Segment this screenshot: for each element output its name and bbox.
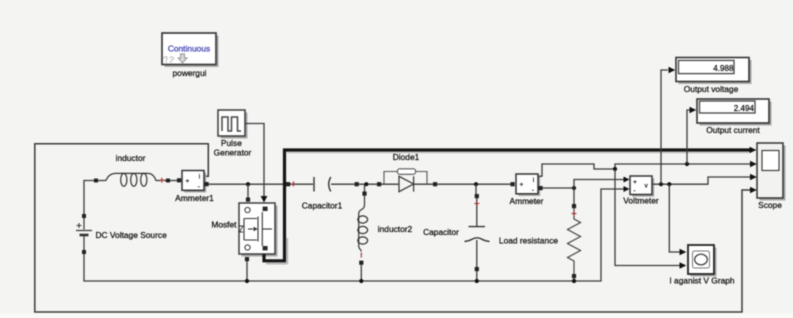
- node arrowhead into Scope input 3: [750, 174, 757, 180]
- node junction dot load on rail: [572, 279, 576, 283]
- svg-text:i: i: [533, 178, 534, 184]
- svg-text:inductor2: inductor2: [378, 224, 413, 234]
- svg-text:Load resistance: Load resistance: [499, 236, 558, 246]
- svg-text:i: i: [199, 174, 200, 180]
- svg-text:Output current: Output current: [706, 125, 760, 135]
- svg-text:Output voltage: Output voltage: [684, 84, 739, 94]
- node junction dot between Capacitor1 and Diode1: [364, 182, 368, 186]
- XY Graph block (I against V): [688, 245, 717, 277]
- svg-text:-: -: [198, 184, 200, 191]
- node junction dot Mosfet source on rail: [245, 279, 249, 283]
- Pulse Generator block: [218, 110, 248, 139]
- wire: Voltmeter output to Scope input 3: [653, 177, 753, 184]
- wire: Ammeter current signal to Scope input 2: [538, 164, 753, 176]
- node arrowhead into Scope input 1: [750, 147, 757, 153]
- svg-text:Ammeter1: Ammeter1: [175, 193, 214, 203]
- wire: load node down to Load resistance: [573, 188, 575, 204]
- svg-text:Mosfet: Mosfet: [211, 220, 237, 230]
- wire: current signal branch up to Output current display: [687, 110, 690, 164]
- inductor2 L2: [358, 196, 368, 252]
- Capacitor1 polarity + (red): [291, 181, 296, 186]
- node junction dot on current signal for display branch: [685, 162, 689, 166]
- node junction dot Capacitor on rail: [475, 279, 479, 283]
- node arrowhead into XY Graph input 1: [680, 249, 687, 255]
- Output current display: [697, 99, 772, 126]
- node junction dot at Capacitor branch: [474, 182, 478, 186]
- svg-text:Ammeter: Ammeter: [510, 196, 544, 206]
- node junction dot on current signal for XY branch: [613, 167, 617, 171]
- Diode1 D1: [384, 169, 427, 184]
- svg-text:Scope: Scope: [758, 200, 782, 210]
- wire: Pulse Generator to Mosfet gate: [245, 124, 264, 197]
- Load resistance polarity + (red): [572, 211, 577, 216]
- wire: Capacitor bottom lead to rail: [476, 271, 478, 281]
- Mosfet Q1 block: [239, 203, 278, 257]
- inductor2 polarity - (red): [360, 253, 362, 258]
- wire: Ammeter output to load node: [543, 187, 574, 189]
- node arrowhead into Output current display: [690, 107, 697, 113]
- wire: load node up to Voltmeter + input: [574, 180, 625, 189]
- wire: voltage signal up to Output voltage display: [661, 70, 668, 184]
- Mosfet port squares: [246, 198, 250, 202]
- Load resistance R1: [568, 208, 581, 274]
- wire: voltage signal down to XY Graph input 1: [669, 184, 681, 252]
- Capacitor1 C1: [314, 177, 331, 192]
- DC source port squares: [82, 214, 86, 218]
- svg-text:DC Voltage Source: DC Voltage Source: [96, 230, 168, 240]
- svg-text:inductor: inductor: [116, 153, 146, 163]
- svg-text:2.494: 2.494: [734, 104, 755, 113]
- node junction dot at Mosfet drain branch: [246, 182, 250, 186]
- svg-text:Continuous: Continuous: [168, 44, 210, 54]
- Diode1 port squares: [377, 182, 381, 186]
- node arrowhead into XY Graph input 2: [680, 262, 687, 268]
- svg-text:+: +: [633, 179, 637, 186]
- wire: inductor to Ammeter1: [98, 180, 177, 182]
- wire: junction down to Mosfet drain: [247, 184, 249, 197]
- Ammeter port squares: [511, 182, 515, 186]
- Ammeter1 block: [182, 171, 206, 193]
- svg-text:Capacitor1: Capacitor1: [302, 201, 343, 211]
- wire: current signal branch down to XY Graph input 2: [615, 169, 681, 266]
- wire: junction down to Capacitor: [475, 184, 477, 194]
- svg-text:Voltmeter: Voltmeter: [623, 195, 659, 205]
- node arrowhead into Output voltage display: [669, 67, 676, 73]
- inductor2 port squares: [362, 192, 366, 196]
- Capacitor1 port squares: [286, 182, 290, 186]
- svg-text:Capacitor: Capacitor: [423, 227, 459, 237]
- wire: Load resistance bottom to rail: [573, 278, 575, 281]
- svg-text:Generator: Generator: [214, 148, 252, 158]
- svg-text:+: +: [186, 178, 190, 185]
- wire: Ammeter1 current signal perimeter loop to Scope input 4: [35, 144, 753, 312]
- Output voltage display: [676, 58, 752, 85]
- Scope block: [757, 143, 786, 201]
- wire: inductor2 bottom lead to rail: [360, 265, 362, 281]
- svg-text:-: -: [532, 187, 534, 194]
- Ammeter block: [516, 174, 540, 196]
- wire: Ammeter1 output to Capacitor1 and Mosfet junction: [209, 183, 313, 185]
- node arrowhead into Voltmeter - input: [624, 186, 630, 192]
- node junction dot voltage signal XY branch: [667, 182, 671, 186]
- svg-text:powergui: powergui: [173, 68, 207, 78]
- wire: Capacitor leads: [476, 198, 478, 267]
- Capacitor polarity + (red): [474, 201, 479, 206]
- inductor L1 coil: [106, 173, 158, 186]
- svg-text:4.988: 4.988: [713, 64, 734, 73]
- Voltmeter block: [630, 176, 654, 197]
- svg-text:-: -: [634, 188, 636, 195]
- svg-text:Diode1: Diode1: [393, 152, 420, 162]
- wire: Diode1 output rail to Ammeter: [437, 183, 510, 185]
- node arrowhead into Scope input 2: [750, 161, 757, 167]
- node junction dot inductor2 on rail: [359, 279, 363, 283]
- node arrowhead into Voltmeter + input: [624, 177, 630, 183]
- node junction dot voltage signal display branch: [659, 182, 663, 186]
- node junction dot at load branch: [572, 186, 576, 190]
- DC Voltage Source V1: [76, 218, 92, 250]
- Ammeter1 port squares: [177, 178, 181, 182]
- powergui block: [162, 33, 219, 67]
- inductor port squares: [94, 179, 98, 183]
- svg-text:I aganist V Graph: I aganist V Graph: [669, 276, 735, 286]
- Capacitor C2 (output): [465, 227, 490, 242]
- wire: left source loop and bottom rail: [84, 181, 625, 282]
- wire: Mosfet source to bottom rail: [246, 261, 248, 281]
- node arrowhead into Scope input 4: [750, 187, 757, 193]
- node arrowhead into Mosfet gate: [261, 196, 268, 203]
- svg-text:+: +: [520, 181, 524, 188]
- wire: Capacitor1 right lead to node: [331, 183, 377, 185]
- Load resistance port squares: [572, 204, 576, 208]
- wire: node down to inductor2: [364, 184, 366, 191]
- wire: Diode1 internal leads: [381, 183, 433, 185]
- inductor polarity + (red): [159, 178, 164, 183]
- Capacitor port squares: [475, 194, 479, 198]
- wire: Mosfet m output bus (thick) to Scope input 1: [264, 150, 753, 261]
